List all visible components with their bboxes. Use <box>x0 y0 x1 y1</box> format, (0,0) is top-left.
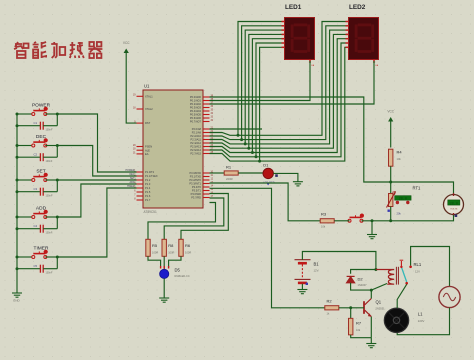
wire rail to capacitor C3 <box>17 191 40 193</box>
wire coil bottom to collector node <box>371 284 387 291</box>
wire P3.6 to R8 <box>164 198 224 239</box>
capacitor C3 <box>40 188 43 196</box>
capacitor C1 <box>40 122 43 130</box>
thermistor RT1 <box>389 194 393 207</box>
wire AC to lamp bottom <box>397 308 449 335</box>
wire R8 to D5 <box>163 256 165 269</box>
svg-text:R2: R2 <box>327 298 333 303</box>
svg-text:R5: R5 <box>152 243 158 248</box>
IC U1 AT89C51 microcontroller <box>143 90 203 208</box>
svg-text:P3.0/RXD: P3.0/RXD <box>189 171 201 175</box>
svg-text:XTAL1: XTAL1 <box>145 94 153 98</box>
wire button cap join <box>56 180 58 192</box>
svg-text:··: ·· <box>349 12 351 15</box>
svg-text:P1.6: P1.6 <box>145 194 151 198</box>
svg-text:P0.3/AD3: P0.3/AD3 <box>190 106 202 110</box>
transistor Q1 <box>370 290 372 298</box>
resistor R2 <box>325 306 339 310</box>
thermometer meter <box>444 195 464 215</box>
wire RT1 to bottom node <box>390 207 392 221</box>
push button ADD <box>32 211 47 218</box>
wire D5 to ground <box>163 279 165 299</box>
wire LED1 segment tap 5 <box>256 43 282 157</box>
wire R4 to RT1 <box>390 166 392 193</box>
svg-text:ADD: ADD <box>129 181 134 184</box>
svg-text:TIMER: TIMER <box>34 246 49 252</box>
svg-text:P0.6/AD6: P0.6/AD6 <box>190 116 202 120</box>
title text 智能加热器 (drawn strokes) <box>14 42 102 58</box>
resistor R6 <box>179 239 183 256</box>
svg-text:P1.0/T2: P1.0/T2 <box>145 170 155 174</box>
svg-text:P1.4: P1.4 <box>145 186 151 190</box>
svg-text:12V: 12V <box>415 269 420 273</box>
wire LED1 segment tap 2 <box>245 30 281 144</box>
svg-text:DEC: DEC <box>129 173 134 176</box>
wire SET net to P1.2 <box>57 179 136 181</box>
svg-text:P2.2/A10: P2.2/A10 <box>190 134 201 138</box>
wire segment bus row 5 <box>210 43 346 157</box>
svg-text:C2: C2 <box>34 153 38 157</box>
svg-text:P2.5/A13: P2.5/A13 <box>190 145 201 149</box>
svg-text:P3.5/T1: P3.5/T1 <box>192 189 202 193</box>
svg-text:P3.6/WR: P3.6/WR <box>191 192 202 196</box>
wire DEC net to P1.1 <box>57 146 136 177</box>
capacitor C5 <box>40 265 43 273</box>
svg-text:CA: CA <box>311 64 315 67</box>
AC source V1 <box>439 286 460 307</box>
VCC power symbol <box>124 49 129 54</box>
wire P3.3 to R3 <box>210 183 321 221</box>
svg-text:P1.5: P1.5 <box>145 190 151 194</box>
svg-text:P1.2: P1.2 <box>145 178 151 182</box>
wire relay NO to AC source <box>411 247 450 287</box>
wire LED1 segment tap 6 <box>260 47 282 161</box>
svg-text:ALE: ALE <box>145 148 150 152</box>
svg-text:VCC: VCC <box>387 110 394 114</box>
wire segment bus row 1 <box>210 26 346 140</box>
push button TIMER <box>32 251 47 258</box>
svg-text:P2.0/A8: P2.0/A8 <box>192 127 202 131</box>
svg-text:RL1: RL1 <box>414 262 422 267</box>
svg-text:RST: RST <box>145 121 151 125</box>
svg-text:10k: 10k <box>356 328 361 332</box>
svg-text:P0.0/AD0: P0.0/AD0 <box>190 95 202 99</box>
svg-text:P3.1/TXD: P3.1/TXD <box>190 175 201 179</box>
push button SET <box>32 174 47 181</box>
wire P3.4 to R2 <box>210 188 325 307</box>
svg-text:C3: C3 <box>34 187 38 191</box>
wire VCC to RST pin <box>126 53 136 124</box>
svg-text:R8: R8 <box>168 243 174 248</box>
wire rail to capacitor C5 <box>17 268 40 270</box>
resistor R7 <box>350 308 352 319</box>
wire segment bus row 2 <box>210 30 346 144</box>
battery B1 <box>295 260 311 283</box>
wire P3.7 to R5 <box>148 203 216 240</box>
U1 left pin stubs and names <box>137 96 144 200</box>
svg-text:220R: 220R <box>226 177 233 181</box>
wire rail to D2 cathode <box>351 270 376 274</box>
svg-text:P2.1/A9: P2.1/A9 <box>192 131 202 135</box>
wire thermometer - to node <box>391 215 454 221</box>
wire ADD net to P1.3 <box>57 184 136 217</box>
ground <box>366 344 376 348</box>
wire segment bus row 0 <box>210 22 346 136</box>
svg-text:SET: SET <box>36 169 45 175</box>
wire rail to button ADD <box>17 216 33 218</box>
RGB LED D5 <box>161 266 169 269</box>
wire emitter down <box>370 317 372 338</box>
svg-text:U1: U1 <box>144 84 150 89</box>
wire LED1 segment tap 1 <box>242 26 282 140</box>
wire P0.0 row to RT1 junction <box>210 97 391 182</box>
svg-text:P3.3/INT1: P3.3/INT1 <box>189 182 201 186</box>
wire rail to capacitor C1 <box>17 125 40 127</box>
relay contact <box>400 261 402 266</box>
svg-text:VCC: VCC <box>123 41 130 45</box>
svg-text:C4: C4 <box>34 224 38 228</box>
wire LED1 segment tap 4 <box>252 39 281 153</box>
wire rail to button DEC <box>17 145 33 147</box>
push button DEC <box>32 140 47 147</box>
svg-text:L1: L1 <box>418 312 423 317</box>
svg-text:100nF: 100nF <box>46 160 53 163</box>
svg-text:P1.3: P1.3 <box>145 182 151 186</box>
resistor R4 <box>389 149 393 166</box>
svg-text:VOLTS: VOLTS <box>450 208 458 210</box>
svg-text:XTAL2: XTAL2 <box>145 107 153 111</box>
svg-text:P3.7/RD: P3.7/RD <box>191 196 201 200</box>
wire segment bus row 4 <box>210 39 346 153</box>
push button POWER <box>32 108 47 115</box>
VCC power symbol <box>388 117 393 122</box>
wire rail to button TIMER <box>17 256 33 258</box>
svg-text:D5: D5 <box>175 267 181 272</box>
svg-text:12V: 12V <box>314 269 319 273</box>
wire R3 to button <box>334 220 349 222</box>
wire D2 anode to collector node <box>351 283 372 290</box>
wire VCC to R4 <box>390 121 392 148</box>
svg-text:P2.3/A11: P2.3/A11 <box>191 138 202 142</box>
wire TIMER net to P1.4 <box>57 188 136 257</box>
svg-text:100R: 100R <box>168 251 174 255</box>
svg-text:P3.4/T0: P3.4/T0 <box>192 185 202 189</box>
wire rail to button POWER <box>17 113 33 115</box>
svg-text:DEC: DEC <box>36 134 47 140</box>
wire LED1 segment tap 0 <box>238 22 282 136</box>
svg-text:P0.7/AD7: P0.7/AD7 <box>190 120 202 124</box>
relay RL1 coil <box>376 270 394 285</box>
wire R6 to D5 <box>169 256 181 266</box>
ground <box>293 182 303 186</box>
wire segment bus row 6 <box>210 47 346 161</box>
svg-text:P2.6/A14: P2.6/A14 <box>190 148 201 152</box>
wire button cap join <box>56 257 58 269</box>
svg-text:EA: EA <box>145 152 149 156</box>
svg-text:100nF: 100nF <box>46 128 53 131</box>
svg-text:RT1: RT1 <box>413 186 422 191</box>
wire B1 + rail to relay <box>302 252 376 270</box>
svg-text:··: ·· <box>285 12 287 15</box>
svg-text:10k: 10k <box>321 225 326 229</box>
U1 right pin stubs and names <box>203 97 210 198</box>
svg-text:C1: C1 <box>34 121 38 125</box>
svg-text:B1: B1 <box>314 262 320 267</box>
svg-text:100R: 100R <box>185 251 191 255</box>
lamp L1 <box>384 308 408 332</box>
svg-text:1N4007: 1N4007 <box>358 283 368 287</box>
wire contact to lamp top <box>397 284 407 308</box>
svg-text:R3: R3 <box>321 211 327 216</box>
svg-text:POWER: POWER <box>125 169 134 172</box>
diode D2 <box>347 276 355 282</box>
ground <box>12 293 22 297</box>
svg-text:28.0: 28.0 <box>399 197 407 201</box>
svg-text:TIMER: TIMER <box>127 185 135 188</box>
svg-text:C5: C5 <box>34 264 38 268</box>
svg-text:ADD: ADD <box>36 206 47 212</box>
svg-text:P1.1/T2EX: P1.1/T2EX <box>145 174 158 178</box>
svg-text:P0.1/AD1: P0.1/AD1 <box>190 99 202 103</box>
svg-text:20k: 20k <box>397 212 402 216</box>
wire LED1 segment tap 3 <box>249 34 282 148</box>
svg-text:R4: R4 <box>397 150 403 155</box>
svg-text:100nF: 100nF <box>46 231 53 234</box>
wire button cap join <box>56 114 58 126</box>
wire R7 to ground rail <box>351 335 372 338</box>
svg-text:2N5551: 2N5551 <box>376 306 386 310</box>
wire junction to thermometer + <box>391 182 454 194</box>
wire to ground <box>370 338 372 344</box>
wire P3.5 to R6 <box>181 194 228 240</box>
svg-text:POWER: POWER <box>32 103 51 109</box>
svg-text:P0.2/AD2: P0.2/AD2 <box>190 102 202 106</box>
capacitor C4 <box>40 225 43 233</box>
wire segment bus row 3 <box>210 34 346 148</box>
svg-text:R7: R7 <box>356 321 362 326</box>
wire rail to capacitor C4 <box>17 228 40 230</box>
resistor R5 <box>146 239 150 256</box>
left button ladder rail <box>16 114 18 293</box>
wire button cap join <box>56 217 58 229</box>
wire POWER net to P1.0 <box>57 114 136 172</box>
svg-text:P1.7: P1.7 <box>145 198 151 202</box>
wire rail to capacitor C2 <box>17 156 40 158</box>
wire B1 to ground <box>301 284 303 290</box>
svg-text:Q1: Q1 <box>376 300 382 305</box>
ground <box>159 298 169 302</box>
svg-text:LED1: LED1 <box>285 4 302 11</box>
wire rail to button SET <box>17 179 33 181</box>
LED D1 <box>238 172 263 174</box>
wire button to RT1 node <box>362 220 391 222</box>
wire P2.0 row stub <box>210 128 263 130</box>
svg-text:R6: R6 <box>185 243 191 248</box>
wire node to ground <box>371 221 373 235</box>
svg-text:GND: GND <box>13 299 21 303</box>
svg-text:CA: CA <box>375 64 379 67</box>
capacitor C2 <box>40 153 43 161</box>
svg-text:PSEN: PSEN <box>145 145 152 149</box>
svg-text:LED2: LED2 <box>349 4 366 11</box>
ground <box>297 290 307 294</box>
resistor R8 <box>162 239 166 256</box>
wire D1 to ground <box>273 173 298 181</box>
svg-text:AT89C51: AT89C51 <box>144 210 157 214</box>
svg-text:R1: R1 <box>226 165 232 170</box>
wire P0.2 row to LED2 CA <box>210 61 375 104</box>
svg-text:P2.7/A15: P2.7/A15 <box>190 152 201 156</box>
svg-text:P3.2/INT0: P3.2/INT0 <box>189 178 201 182</box>
svg-text:220V: 220V <box>418 319 425 323</box>
svg-text:D1: D1 <box>263 163 269 168</box>
wire button cap join <box>56 146 58 158</box>
wire R5 to D5 <box>148 256 161 266</box>
svg-text:10k: 10k <box>397 157 402 161</box>
resistor R3 <box>320 219 334 223</box>
svg-text:100nF: 100nF <box>46 271 53 274</box>
svg-text:SET: SET <box>130 177 135 180</box>
svg-text:100R: 100R <box>152 251 158 255</box>
push button (manual heat) <box>348 215 363 222</box>
svg-text:P0.4/AD4: P0.4/AD4 <box>190 109 202 113</box>
ground <box>367 235 377 239</box>
svg-text:D2: D2 <box>358 276 364 281</box>
svg-text:28.0: 28.0 <box>450 202 458 206</box>
svg-text:RGBLED-CC: RGBLED-CC <box>175 274 190 278</box>
wire P0.1 row to LED1 CA <box>210 61 311 101</box>
wire R2 to base <box>339 307 364 309</box>
svg-text:P2.4/A12: P2.4/A12 <box>190 141 201 145</box>
svg-text:100nF: 100nF <box>46 194 53 197</box>
svg-text:P0.5/AD5: P0.5/AD5 <box>190 113 202 117</box>
resistor R1 <box>210 172 225 174</box>
